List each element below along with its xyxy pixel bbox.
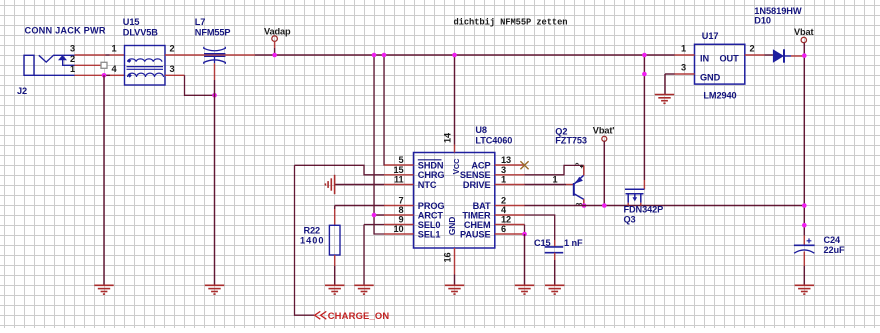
pin 2 of U17 (OUT) — [745, 54, 765, 56]
pin of L7 down / wire to ground — [214, 63, 216, 80]
svg-text:5: 5 — [398, 155, 403, 165]
extra junction dot on gate wire — [642, 72, 647, 77]
pin 3 of U8 (right) — [495, 174, 525, 176]
IC U8 body — [414, 153, 495, 249]
wire Vbat-prime to BAT row — [603, 141, 605, 205]
svg-text:DLVV5B: DLVV5B — [123, 28, 158, 38]
junction Q2 collector on BAT row — [582, 203, 587, 208]
pin 1 of R22 (top) — [334, 209, 336, 225]
wire TIMER to C15 — [525, 215, 555, 240]
ground symbol below U17 GND — [655, 95, 674, 104]
wire SHDN to rail vertical — [383, 55, 385, 165]
svg-text:dichtbij NFM55P zetten: dichtbij NFM55P zetten — [454, 17, 568, 27]
capacitor C15 body — [545, 246, 564, 248]
power port Vbat circle — [801, 37, 806, 42]
choke U15 lower winding — [128, 73, 164, 77]
wire rail to Q3 gate — [643, 55, 645, 180]
junction pin14 on rail — [452, 53, 457, 58]
pin 4 of Q3 (gate) — [643, 180, 645, 189]
svg-text:PAUSE: PAUSE — [460, 229, 490, 239]
pin 7 of U8 (left) — [384, 205, 414, 207]
pin 3 of J2 / pin 1 of U15 — [75, 54, 106, 56]
svg-text:1: 1 — [111, 44, 116, 54]
svg-text:C24: C24 — [824, 235, 842, 245]
svg-text:1: 1 — [501, 175, 506, 185]
wire DRIVE to Q2 base — [525, 184, 567, 186]
pin 10 of U8 (left) — [384, 233, 414, 235]
wire BAT row to battery net — [525, 205, 805, 207]
svg-text:3: 3 — [169, 64, 174, 74]
pin 2 of J2 (unconnected) — [75, 64, 102, 66]
svg-text:2: 2 — [749, 44, 754, 54]
svg-text:SEL0: SEL0 — [418, 220, 441, 230]
svg-text:VCC: VCC — [452, 158, 461, 174]
svg-text:1 nF: 1 nF — [564, 238, 583, 248]
svg-text:IN: IN — [700, 54, 709, 64]
svg-text:15: 15 — [393, 165, 403, 175]
power port Vadap circle — [272, 36, 278, 42]
regulator U17 body — [695, 44, 745, 84]
wire PROG to R22 — [335, 205, 384, 207]
ground symbol below SEL0 — [354, 285, 373, 294]
svg-text:NTC: NTC — [418, 180, 437, 190]
pin 5 of U8 (left) — [384, 164, 414, 166]
wire ARCT stub — [374, 214, 384, 216]
pin 14 of U8 (top) with wire to rail — [454, 55, 456, 145]
svg-text:CONN JACK PWR: CONN JACK PWR — [25, 26, 106, 36]
pin 1 of Q2 (base) — [566, 184, 574, 186]
svg-text:D10: D10 — [754, 15, 771, 25]
pin 2 of C15 (bottom) wire to ground — [554, 253, 556, 260]
svg-text:11: 11 — [394, 175, 404, 185]
svg-text:1N5819HW: 1N5819HW — [754, 6, 802, 16]
capacitor C24 plus sign — [807, 238, 812, 243]
pin 8 of U8 (left) — [384, 214, 414, 216]
svg-text:Vbat: Vbat — [794, 27, 814, 37]
svg-text:DRIVE: DRIVE — [463, 180, 491, 190]
svg-text:SENSE: SENSE — [460, 170, 491, 180]
svg-text:22uF: 22uF — [824, 245, 846, 255]
wire NTC to signal ground — [335, 184, 384, 186]
svg-text:16: 16 — [443, 252, 453, 262]
svg-text:GND: GND — [700, 73, 721, 83]
pin 12 of U8 (right) — [495, 224, 525, 226]
tiny emitter pin designator marks — [576, 163, 584, 168]
pins of Q3 source and drain — [627, 203, 629, 206]
junction SHDN vertical on rail — [382, 53, 387, 58]
svg-text:CHRG: CHRG — [418, 170, 445, 180]
resistor R22 body — [329, 225, 340, 255]
svg-text:FZT753: FZT753 — [555, 136, 587, 146]
junction Vbat at diode — [802, 53, 807, 58]
junction Vbat-prime on BAT row — [602, 203, 607, 208]
svg-text:LM2940: LM2940 — [703, 91, 736, 101]
ground symbol below R22 — [325, 285, 344, 294]
pin 16 of U8 (bottom) wire to ground — [454, 248, 456, 275]
wire SEL0 to ground — [364, 225, 384, 286]
pin 1 of J2 / pin 4 of U15 — [75, 74, 104, 76]
ground symbol below PAUSE — [515, 285, 534, 294]
junction at J2 pin1 / ground drop — [102, 73, 107, 78]
svg-text:13: 13 — [501, 155, 511, 165]
svg-text:1400: 1400 — [300, 235, 324, 245]
svg-text:2: 2 — [169, 44, 174, 54]
filter L7 body — [204, 47, 226, 64]
svg-text:Q3: Q3 — [624, 215, 636, 225]
wire PAUSE to ground — [524, 234, 526, 285]
pin 15 of U8 (left) — [384, 174, 414, 176]
pin of D10 cathode to Vbat — [791, 55, 804, 57]
pin 4 of U8 (right) — [495, 214, 525, 216]
pin 2 of Q2 (emitter) — [583, 165, 585, 175]
pin 2 of R22 (bottom) wire to ground — [334, 255, 336, 266]
no-connect cross on pin 13 ACP — [520, 161, 528, 169]
pin 1 of C24 (top) — [803, 235, 805, 245]
connector J2 body — [24, 55, 75, 75]
wire Vadap rail — [255, 54, 675, 56]
svg-text:14: 14 — [443, 132, 453, 143]
ground symbol below L7 — [205, 285, 224, 294]
choke U15 upper winding — [128, 59, 162, 62]
wire from J2 pin1 junction down to ground — [103, 75, 105, 285]
pin 2 of U15 / Vadap rail start — [165, 54, 255, 56]
svg-text:1: 1 — [552, 174, 557, 184]
svg-text:CHARGE_ON: CHARGE_ON — [328, 310, 390, 321]
junction Vbat at BAT row — [802, 203, 807, 208]
power port Vbat-prime circle — [602, 136, 607, 141]
svg-text:OUT: OUT — [720, 54, 740, 64]
svg-text:PROG: PROG — [418, 201, 445, 211]
svg-text:Vbat': Vbat' — [593, 126, 615, 136]
wire CHRG to CHARGE_ON net — [295, 165, 385, 175]
choke U15 core lines — [127, 66, 164, 68]
net label CHARGE_ON with chevrons — [315, 311, 327, 319]
svg-text:U15: U15 — [123, 17, 140, 27]
junction Q3 gate on rail — [642, 53, 647, 58]
pin 3 of U15 — [165, 74, 185, 76]
svg-text:3: 3 — [501, 165, 506, 175]
wire CHARGE_ON vertical — [295, 165, 315, 315]
svg-text:7: 7 — [398, 196, 403, 206]
svg-text:L7: L7 — [195, 17, 206, 27]
pin 3 of U17 (GND) — [675, 73, 695, 75]
wire OUT to D10 — [765, 54, 773, 56]
extra junction dot on Vbat column — [802, 223, 807, 228]
svg-text:ARCT: ARCT — [418, 210, 444, 220]
wire ARCT/SEL1 to rail vertical — [374, 55, 384, 234]
mosfet Q3 body (FDN342P) — [625, 189, 644, 203]
svg-text:TIMER: TIMER — [462, 210, 491, 220]
no-connect square marker on pin 2 — [101, 62, 107, 68]
transistor Q2 body (PNP) — [574, 175, 584, 199]
junction at ARCT row — [372, 213, 377, 218]
svg-text:1: 1 — [70, 64, 75, 74]
diode D10 body — [773, 49, 784, 62]
junction at L7 column — [212, 93, 217, 98]
signal ground symbol at NTC (pointing left) — [325, 175, 334, 194]
wire Q2 collector to BAT row — [583, 204, 585, 206]
svg-text:LTC4060: LTC4060 — [475, 136, 512, 146]
svg-text:9: 9 — [398, 215, 403, 225]
Q2 emitter arrow (PNP) — [575, 177, 583, 184]
svg-text:3: 3 — [681, 63, 686, 73]
svg-text:NFM55P: NFM55P — [195, 28, 231, 38]
svg-text:SHDN: SHDN — [418, 160, 444, 170]
wire SENSE to Q2 emitter — [525, 165, 584, 174]
pin 11 of U8 (left) — [384, 184, 414, 186]
ground symbol below C15 — [545, 285, 564, 294]
svg-text:2: 2 — [501, 196, 506, 206]
ground symbol below J2 — [94, 285, 113, 294]
ground symbol below C24 — [795, 285, 814, 294]
svg-text:10: 10 — [393, 224, 403, 234]
svg-text:2: 2 — [70, 54, 75, 64]
pin 13 of U8 (right) — [495, 164, 525, 166]
pin 9 of U8 (left) — [384, 224, 414, 226]
tiny collector pin designator marks — [576, 203, 582, 204]
svg-text:ACP: ACP — [471, 160, 490, 170]
pin 2 of C24 (bottom) wire to ground — [803, 252, 805, 267]
svg-text:8: 8 — [398, 205, 403, 215]
svg-text:6: 6 — [501, 224, 506, 234]
junction CHEM/PAUSE — [522, 232, 527, 237]
pin 3 of Q2 (collector) — [583, 199, 585, 203]
svg-text:1: 1 — [681, 44, 686, 54]
pin 2 of U8 (right) — [495, 205, 525, 207]
svg-text:GND: GND — [447, 217, 457, 236]
svg-text:3: 3 — [70, 44, 75, 54]
svg-text:U17: U17 — [702, 31, 719, 41]
svg-text:Vadap: Vadap — [264, 27, 291, 37]
wire U15 pin3 to L7 ground column — [185, 75, 215, 95]
svg-text:J2: J2 — [17, 86, 27, 96]
junction Vadap on rail — [272, 53, 277, 58]
svg-text:U8: U8 — [475, 125, 487, 135]
svg-text:R22: R22 — [304, 225, 321, 235]
pin 1 of C15 (top) — [554, 240, 556, 247]
capacitor C24 body (polarized) — [794, 244, 815, 246]
svg-text:BAT: BAT — [473, 201, 491, 211]
choke U15 body — [125, 46, 166, 86]
svg-text:FDN342P: FDN342P — [624, 205, 664, 215]
wire U17 GND to ground — [664, 74, 666, 94]
svg-text:CHEM: CHEM — [464, 220, 491, 230]
pin 1 of U8 (right) — [495, 184, 525, 186]
svg-text:12: 12 — [501, 215, 511, 225]
ground symbol below U8 pin16 — [445, 285, 464, 294]
wire CHEM down to PAUSE — [524, 225, 526, 235]
wire Vbat down to C24 — [803, 43, 805, 236]
Q3 arrow — [633, 197, 638, 201]
pin 1 of U17 (IN) — [675, 54, 695, 56]
wire Vadap port to rail — [274, 41, 276, 48]
junction ARCT vertical on rail — [372, 53, 377, 58]
svg-text:SEL1: SEL1 — [418, 229, 441, 239]
pin 6 of U8 (right) — [495, 233, 525, 235]
